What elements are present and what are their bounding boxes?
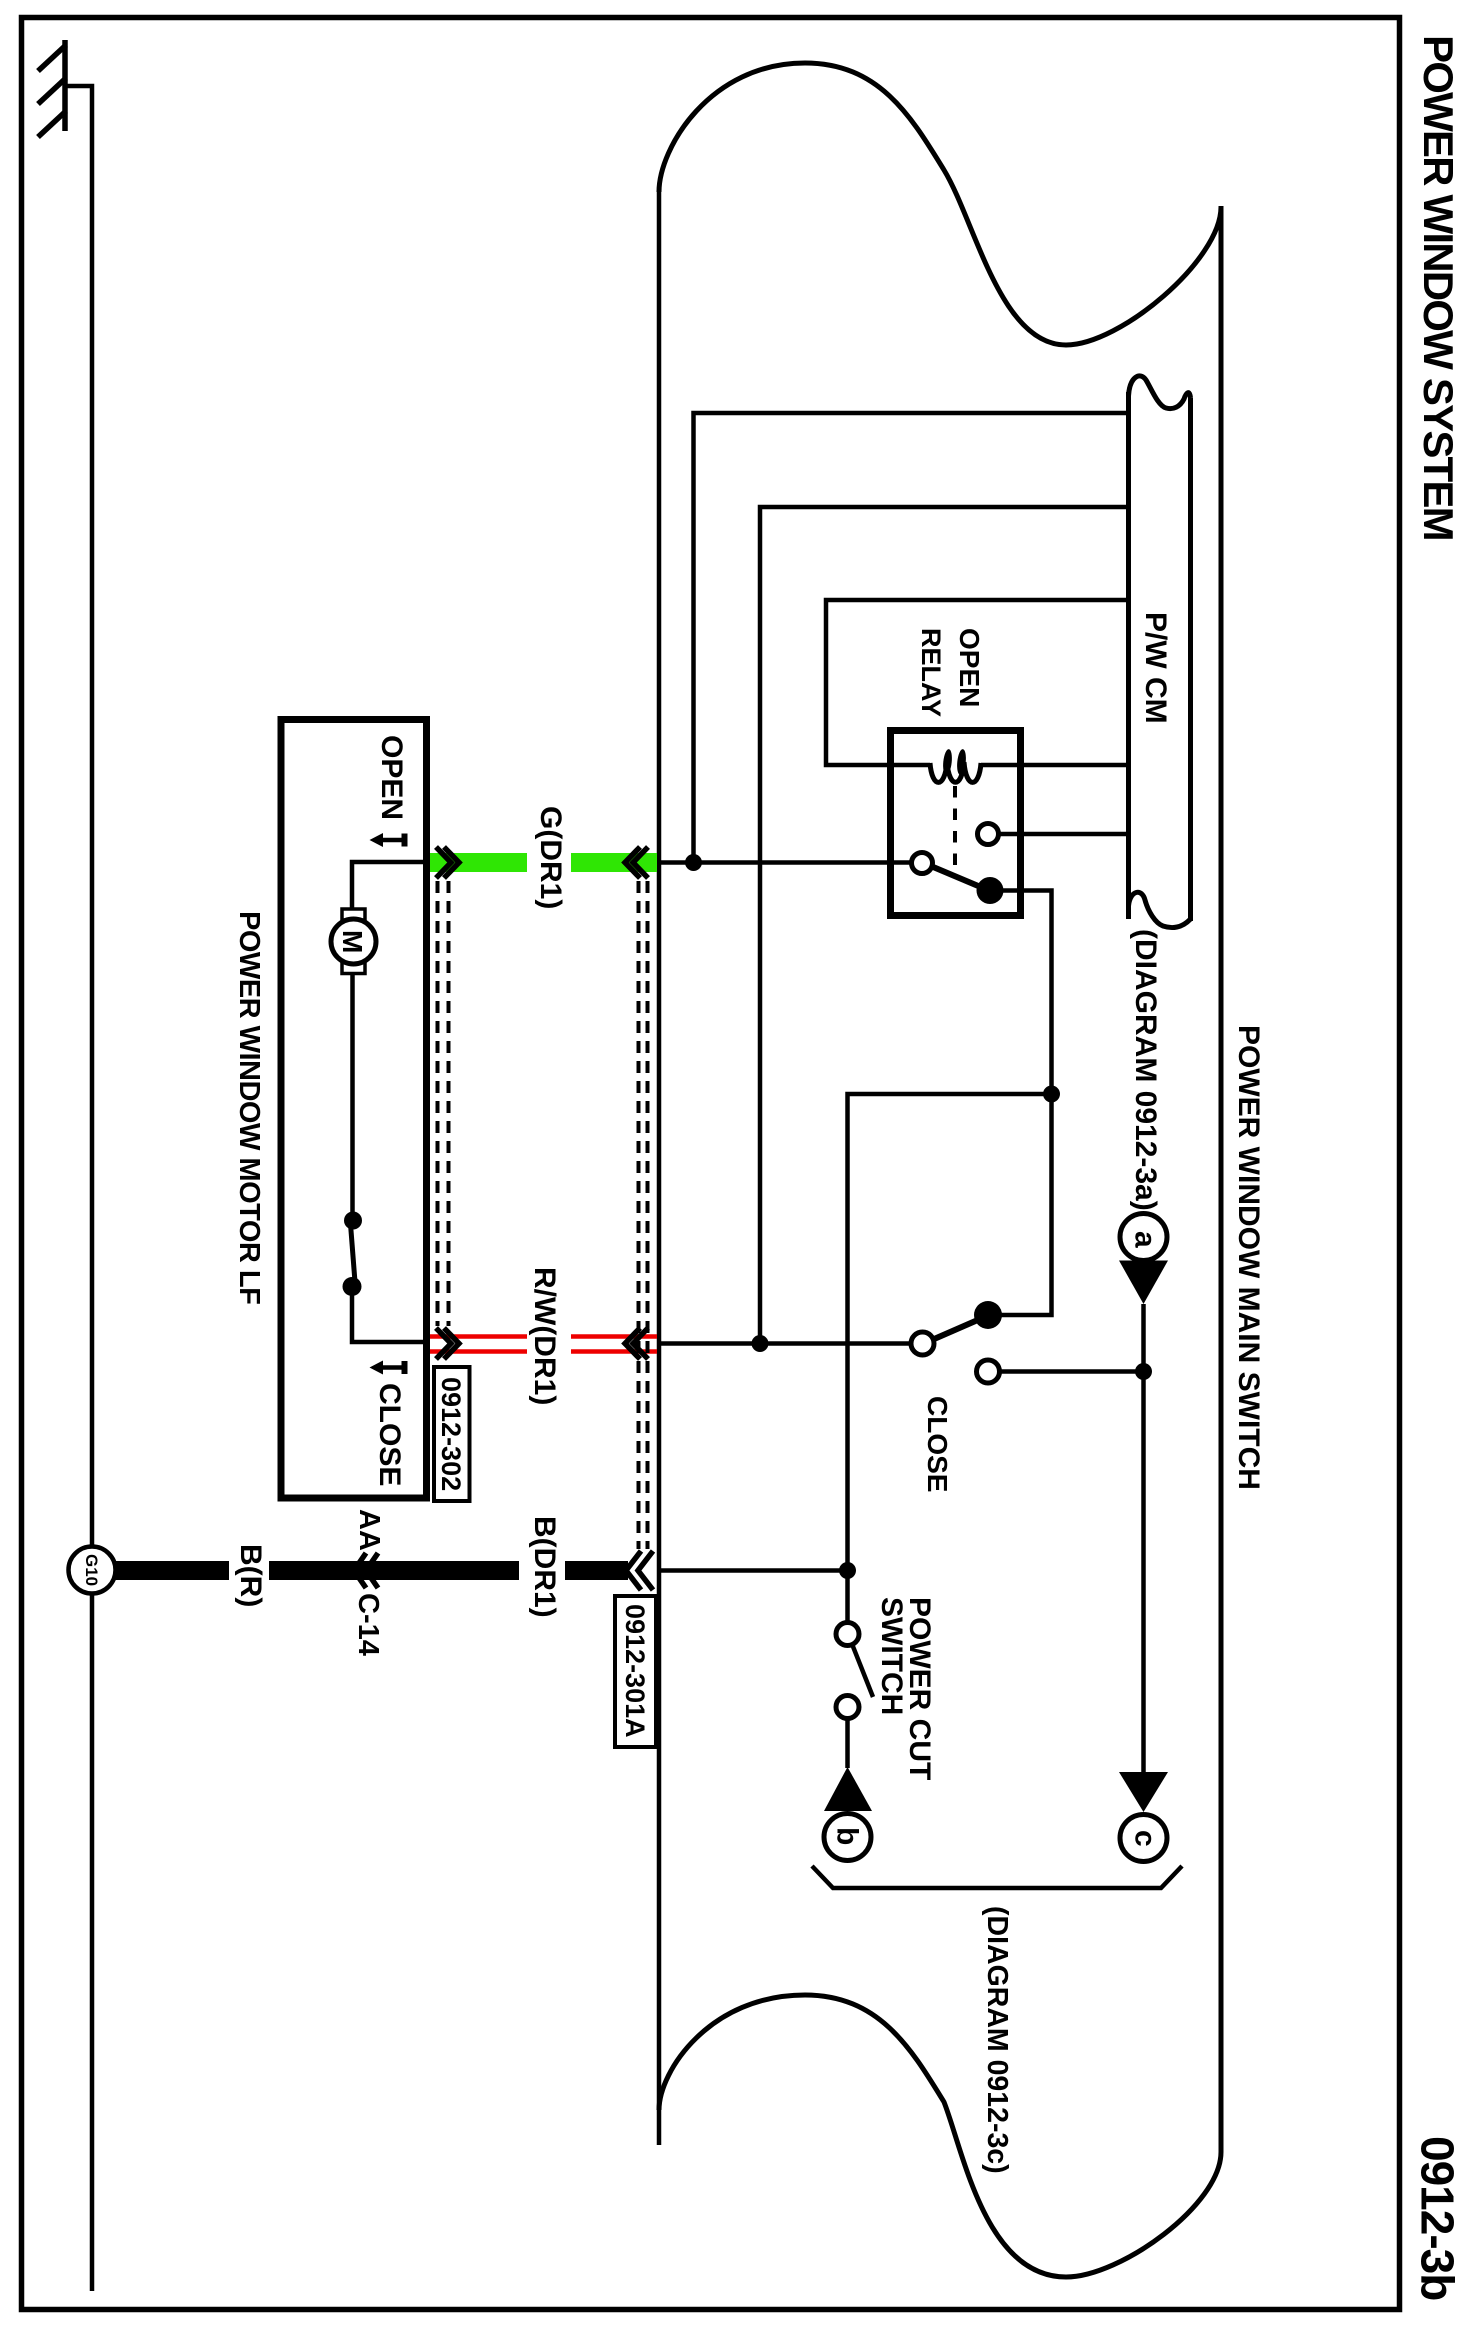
relay moving contact bbox=[932, 867, 983, 889]
junction dot at c riser bbox=[1135, 1363, 1152, 1380]
wire green junction to relay common bbox=[657, 860, 912, 865]
svg-text:POWER WINDOW MAIN SWITCH: POWER WINDOW MAIN SWITCH bbox=[1232, 1025, 1265, 1490]
wire B(R) thick black bbox=[114, 1561, 628, 1580]
svg-text:G(DR1): G(DR1) bbox=[534, 806, 567, 909]
relay coil bbox=[930, 762, 981, 782]
relay outline bbox=[891, 731, 1021, 916]
wire coil to P/W CM pin4 bbox=[981, 763, 1128, 768]
power cut switch bbox=[836, 1571, 936, 1781]
close switch (main) bbox=[911, 1301, 1002, 1492]
svg-text:B(R): B(R) bbox=[234, 1544, 267, 1607]
svg-text:B(DR1): B(DR1) bbox=[528, 1516, 561, 1618]
open relay U1 bbox=[826, 600, 1128, 916]
harness dashed lines left pair bbox=[438, 881, 449, 1326]
relay dashed actuator bbox=[953, 786, 957, 867]
blob right edge bbox=[1219, 206, 1224, 2152]
brace to diagram 0912-3c bbox=[812, 1866, 1182, 1888]
wire motor bottom lead bbox=[350, 973, 355, 1214]
arrow open bbox=[370, 833, 408, 847]
P/W CM bottom torn edge bbox=[1129, 892, 1191, 927]
power window motor LF box bbox=[281, 720, 427, 1499]
svg-text:CLOSE: CLOSE bbox=[373, 1383, 406, 1486]
svg-text:0912-301A: 0912-301A bbox=[620, 1604, 650, 1738]
svg-text:SWITCH: SWITCH bbox=[875, 1597, 908, 1715]
svg-text:b: b bbox=[831, 1827, 864, 1845]
svg-text:c: c bbox=[1129, 1830, 1162, 1847]
motor M1 bbox=[331, 909, 376, 974]
svg-text:OPEN: OPEN bbox=[375, 735, 408, 820]
svg-text:0912-302: 0912-302 bbox=[436, 1377, 466, 1491]
blob left edge bbox=[657, 190, 662, 2145]
wire R/W(DR1) red double bbox=[430, 1337, 657, 1352]
svg-text:R/W(DR1): R/W(DR1) bbox=[528, 1267, 561, 1405]
svg-text:POWER WINDOW SYSTEM: POWER WINDOW SYSTEM bbox=[1415, 35, 1462, 540]
connector chevrons on red wire bbox=[436, 1328, 648, 1359]
connector 0912-301A bbox=[615, 1596, 656, 1747]
wire B(DR1) into switch bbox=[657, 1568, 848, 1573]
svg-text:(DIAGRAM 0912-3a): (DIAGRAM 0912-3a) bbox=[1129, 929, 1162, 1211]
svg-text:C-14: C-14 bbox=[352, 1593, 384, 1656]
svg-text:CLOSE: CLOSE bbox=[922, 1396, 953, 1492]
svg-text:0912-3b: 0912-3b bbox=[1412, 2136, 1464, 2300]
relay common contact bbox=[912, 853, 933, 874]
P/W CM module column bbox=[1129, 376, 1191, 928]
junction dot B node bbox=[839, 1562, 856, 1579]
wire coil feed from P/W CM bbox=[826, 600, 1128, 765]
connector chevrons on green wire bbox=[436, 847, 648, 878]
wire ground to G10 (left vertical) bbox=[66, 86, 92, 2291]
connector 0912-302 bbox=[434, 1367, 470, 1501]
svg-text:G10: G10 bbox=[82, 1554, 101, 1586]
wire R/W to close switch bbox=[657, 1341, 910, 1346]
main switch module blob bbox=[659, 63, 1221, 2277]
off-page connector b bbox=[824, 1767, 872, 1861]
ground point G10 bbox=[69, 1547, 116, 1594]
blob top torn edge bbox=[659, 63, 1221, 345]
off-page connector c bbox=[1119, 1772, 1168, 1862]
wire node to P/W CM pin1 bbox=[694, 413, 1129, 863]
svg-text:OPEN: OPEN bbox=[954, 628, 985, 707]
chevron on B(DR1) at harness bbox=[626, 1551, 653, 1590]
svg-text:POWER WINDOW MOTOR LF: POWER WINDOW MOTOR LF bbox=[233, 911, 265, 1304]
junction dot green node bbox=[685, 854, 702, 871]
svg-text:RELAY: RELAY bbox=[916, 628, 946, 717]
wire node to P/W CM pin2 bbox=[760, 507, 1128, 1344]
blob bottom torn edge bbox=[659, 1995, 1221, 2277]
svg-text:(DIAGRAM 0912-3c): (DIAGRAM 0912-3c) bbox=[981, 1906, 1013, 2174]
wire motor top lead bbox=[352, 862, 423, 909]
svg-text:a: a bbox=[1129, 1231, 1162, 1248]
off-page connector a bbox=[1119, 1214, 1168, 1305]
motor limit switch bbox=[343, 1212, 363, 1297]
wire switch to close terminal bbox=[352, 1294, 423, 1342]
label (DIAGRAM 0912-3a) arrow riser bbox=[1141, 1304, 1146, 1772]
P/W CM top torn edge bbox=[1129, 376, 1191, 409]
harness dashed lines right pair bbox=[639, 881, 648, 1549]
ground symbol bbox=[38, 40, 66, 137]
chevron on B(R) at C-14 bbox=[354, 1553, 378, 1588]
wire branch to power cut switch bbox=[848, 1094, 1052, 1571]
junction dot R/W node bbox=[752, 1335, 769, 1352]
junction dot relay output bbox=[1043, 1086, 1060, 1103]
wire G(DR1) green bbox=[430, 853, 657, 872]
arrow close bbox=[370, 1361, 408, 1375]
wire lower contact to node c bbox=[999, 1369, 1144, 1374]
svg-text:AA: AA bbox=[353, 1509, 385, 1551]
svg-text:M: M bbox=[337, 930, 368, 953]
wire relay output to close switch bbox=[1000, 891, 1052, 1316]
relay NC contact bbox=[978, 824, 999, 845]
svg-text:P/W CM: P/W CM bbox=[1139, 612, 1172, 724]
wire NC to P/W CM pin5 bbox=[998, 832, 1128, 837]
